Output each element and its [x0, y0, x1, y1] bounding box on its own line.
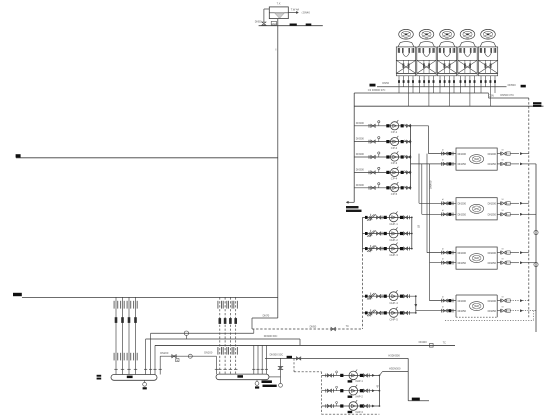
discharge header to H3DN300 [383, 371, 409, 373]
svg-text:DN250: DN250 [488, 213, 497, 217]
svg-text:S I: S I [502, 248, 505, 250]
cooling tower CT-2 fan [419, 29, 434, 39]
svg-text:DN200: DN200 [458, 202, 467, 206]
svg-text:DN250: DN250 [458, 213, 467, 217]
svg-text:d I: d I [442, 149, 445, 151]
chilled water main right (solid) [535, 164, 537, 332]
svg-text:DN200: DN200 [488, 202, 497, 206]
distributor header (right) [216, 374, 269, 380]
pump CHP-5 [389, 309, 398, 318]
return main to left, node KT-1 [13, 293, 22, 296]
cooling tower CT-4 hood [460, 42, 476, 47]
chiller CH-1 condenser inlet line [429, 153, 457, 155]
svg-text:DN200: DN200 [458, 152, 467, 156]
svg-text:DN500: DN500 [508, 83, 517, 87]
svg-text:500: 500 [425, 38, 428, 40]
pump CHP-3 [389, 244, 398, 253]
pump CP-2 [391, 138, 399, 146]
chiller CH-4 body [456, 294, 497, 296]
cooling tower CT-3 hood [439, 42, 455, 47]
chiller CH-3 condenser lines [427, 252, 456, 254]
cooling tower CT-5 body [478, 47, 497, 74]
svg-text:XHP-3: XHP-3 [355, 410, 363, 414]
CHP discharge bus lower [415, 296, 417, 313]
svg-text:7C: 7C [346, 324, 349, 328]
svg-text:DN300: DN300 [356, 152, 365, 156]
chilled supply line upper [151, 332, 254, 334]
svg-text:CP-3: CP-3 [391, 161, 398, 165]
svg-text:500: 500 [445, 38, 448, 40]
svg-text:S I: S I [502, 259, 505, 261]
cooling tower CT-2 body [417, 47, 436, 74]
svg-text:DN250: DN250 [458, 261, 467, 265]
chiller CH-4 compressor [470, 302, 484, 311]
cooling tower CT-3 basin [437, 73, 456, 75]
svg-text:S I: S I [502, 199, 505, 201]
distributor risers (dashed) [219, 297, 221, 374]
svg-text:DN300: DN300 [356, 183, 365, 187]
pump discharge bus [410, 126, 412, 188]
svg-text:500: 500 [404, 38, 407, 40]
svg-text:DN200: DN200 [488, 152, 497, 156]
svg-text:C3 DN500 37C: C3 DN500 37C [368, 88, 386, 92]
chiller CH-3 outlet valves [497, 252, 500, 254]
distributor riser to 50C line [280, 358, 282, 383]
svg-text:( DN40: ( DN40 [302, 10, 311, 14]
svg-text:XHP-2: XHP-2 [355, 395, 363, 399]
dotted future chiller line [445, 319, 534, 321]
secondary pump XHP-1 branch [322, 374, 380, 376]
svg-text:CP-5: CP-5 [391, 192, 398, 196]
drop pipes to chiller CH-3 [426, 154, 428, 253]
svg-text:DN200: DN200 [458, 299, 467, 303]
svg-text:DN400: DN400 [419, 340, 428, 344]
svg-text:DN50: DN50 [382, 81, 389, 85]
tank outlet to right, DN40 [288, 12, 297, 14]
make-up dashed line to pump suction [252, 328, 363, 330]
svg-text:d I: d I [442, 296, 445, 298]
svg-text:CP-2: CP-2 [391, 146, 398, 150]
cooling tower CT-1 basin [396, 73, 415, 75]
svg-text:DN300: DN300 [356, 167, 365, 171]
chiller CH-1 body [456, 148, 497, 170]
pump CHP-4 [389, 292, 398, 301]
svg-text:DN400: DN400 [429, 180, 433, 189]
chilled water pump CHP-4 branch [363, 295, 416, 297]
svg-text:LB: LB [416, 225, 420, 228]
cooling tower CT-1 body [396, 47, 415, 74]
svg-text:H3DN300: H3DN300 [389, 366, 401, 370]
distributor drain [256, 380, 258, 382]
svg-text:CHP-5: CHP-5 [389, 318, 398, 322]
svg-text:500: 500 [466, 38, 469, 40]
svg-text:H3DN300: H3DN300 [388, 353, 400, 357]
pump CP-1 [391, 122, 399, 130]
chilled water pump CHP-5 branch [363, 312, 416, 314]
svg-text:S I: S I [502, 210, 505, 212]
svg-text:DN200: DN200 [488, 251, 497, 255]
cooling tower CT-1 outlet pipes [398, 76, 400, 93]
cooling tower CT-2 basin [417, 73, 436, 75]
cooling tower CT-1 fan [399, 29, 414, 39]
cooling tower CT-4 body [458, 47, 477, 74]
chilled pump suction bus [362, 217, 364, 250]
svg-text:CP-1: CP-1 [391, 130, 398, 134]
svg-text:DN200: DN200 [488, 299, 497, 303]
svg-text:DN300: DN300 [356, 137, 365, 141]
secondary pump XHP-3 branch [322, 405, 380, 407]
drop pipes to chiller CH-2 [418, 154, 420, 204]
secondary pump XHP-2 branch [322, 390, 380, 392]
expansion tank TK [269, 7, 288, 19]
svg-text:S I: S I [502, 307, 505, 309]
cooling tower CT-3 body [437, 47, 456, 74]
riser end arrow LHWS [347, 201, 354, 203]
collector header (left) [111, 375, 157, 381]
svg-text:||: || [275, 49, 277, 51]
drop pipe to chiller CH-4 [429, 263, 431, 301]
svg-text:d I: d I [442, 259, 445, 261]
collector risers [115, 297, 117, 374]
chiller CH-2 body [456, 198, 497, 220]
chilled return DN300 60C [146, 338, 300, 340]
chiller CH-1 compressor [470, 155, 484, 164]
svg-text:7.X: 7.X [277, 2, 281, 6]
pump XHP-2 [349, 386, 358, 395]
pump CP-3 [391, 153, 399, 161]
svg-text:d I: d I [442, 307, 445, 309]
svg-text:XHP-1: XHP-1 [355, 379, 363, 383]
cooling tower CT-1 hood [398, 42, 414, 47]
svg-text:CHP-1: CHP-1 [389, 222, 398, 226]
svg-text:DN250: DN250 [458, 162, 467, 166]
svg-text:S I: S I [502, 160, 505, 162]
roof line under tank [259, 25, 323, 27]
cooling tower CT-2 hood [419, 42, 435, 47]
svg-text:T.W 4A: T.W 4A [291, 8, 300, 12]
svg-text:DN250: DN250 [488, 309, 497, 313]
svg-text:DN50: DN50 [255, 20, 262, 24]
chiller CH-3 body [456, 247, 497, 269]
chiller CH-2 outlet valves [497, 202, 500, 204]
main riser pipe from tank [277, 19, 279, 318]
tower supply main bottom [354, 105, 543, 107]
svg-text:DN70: DN70 [263, 313, 270, 317]
svg-text:d I: d I [442, 199, 445, 201]
svg-text:CHP-3: CHP-3 [389, 253, 398, 257]
pump CHP-1 [389, 213, 398, 222]
svg-text:500: 500 [486, 38, 489, 40]
cooling tower CT-4 basin [458, 73, 477, 75]
pump CP-4 [391, 168, 399, 176]
cooling tower CT-4 fan [460, 29, 475, 39]
svg-text:DN300 60C: DN300 60C [264, 334, 278, 338]
svg-text:DN300: DN300 [356, 121, 365, 125]
chiller CH-4 condenser lines [430, 300, 457, 302]
svg-text:DN200: DN200 [160, 351, 169, 355]
chilled water pump CHP-3 branch [363, 248, 412, 250]
svg-text:DN200: DN200 [458, 251, 467, 255]
supply main to left, node a [16, 154, 21, 157]
chiller CH-1 condenser outlet line [411, 163, 457, 165]
cooling tower CT-4 outlet pipes [460, 76, 462, 93]
left riser to condenser pumps [353, 93, 355, 202]
svg-text:45: 45 [376, 384, 379, 387]
svg-text:CP-4: CP-4 [391, 177, 398, 181]
svg-text:DN50: DN50 [310, 325, 317, 329]
svg-text:DN300 50C: DN300 50C [270, 352, 284, 356]
cooling tower CT-5 outlet pipes [480, 76, 482, 93]
make-up pipe jog DN70 [252, 317, 278, 319]
svg-text:DN200: DN200 [204, 350, 213, 354]
drops into collector header [145, 339, 147, 375]
chiller CH-4 outlet valves [497, 300, 500, 302]
svg-text:7C: 7C [443, 340, 446, 344]
tower equalizer line DN500 37C [354, 92, 488, 94]
svg-text:S I: S I [502, 149, 505, 151]
cooling tower CT-5 fan [481, 29, 496, 39]
svg-text:d I: d I [442, 248, 445, 250]
pump XHP-1 [349, 371, 358, 380]
svg-text:CHP-4: CHP-4 [389, 301, 398, 305]
bypass DN200 with motor valve [160, 355, 216, 357]
50C line drop and end [407, 358, 409, 400]
secondary pump suction (dashed) [293, 358, 295, 371]
secondary pump discharge bus [378, 375, 380, 406]
chilled water pump CHP-2 branch [363, 233, 412, 235]
chiller CH-1 outlet valves [497, 153, 500, 155]
overflow label box DN25 [271, 21, 276, 25]
main line DN400 to 7C [155, 344, 455, 346]
cooling tower CT-2 outlet pipes [419, 76, 421, 93]
pump XHP-3 [349, 402, 358, 411]
drops into distributor header [253, 329, 255, 333]
pump CP-5 [391, 184, 399, 192]
chiller CH-3 compressor [470, 254, 484, 263]
condenser return main (dashed, right) [528, 98, 530, 317]
cooling tower CT-3 outlet pipes [439, 76, 441, 93]
svg-text:DN250: DN250 [458, 309, 467, 313]
CP-1 line to chiller header [411, 125, 429, 127]
svg-text:DN250: DN250 [488, 261, 497, 265]
svg-text:DN500 37C: DN500 37C [500, 93, 514, 97]
svg-text:DN25: DN25 [272, 23, 278, 25]
svg-text:C3N: C3N [489, 93, 494, 97]
cooling tower CT-5 hood [480, 42, 496, 47]
tower header DN500 (upper) [370, 84, 376, 87]
svg-text:CHP-2: CHP-2 [389, 238, 398, 242]
cooling tower CT-5 basin [478, 73, 497, 75]
svg-text:S I: S I [502, 296, 505, 298]
svg-text:d I: d I [442, 210, 445, 212]
svg-text:d I: d I [442, 160, 445, 162]
cooling tower CT-3 fan [440, 29, 455, 39]
pump CHP-2 [389, 229, 398, 238]
chilled water pump CHP-1 branch [363, 216, 412, 218]
chiller CH-2 compressor [470, 204, 484, 213]
CHP discharge bus upper [411, 217, 413, 248]
tank fill pipe with valve, DN50 [264, 8, 269, 10]
chiller CH-2 condenser lines [419, 202, 456, 204]
svg-text:DN250: DN250 [488, 162, 497, 166]
collector drain [144, 380, 146, 382]
